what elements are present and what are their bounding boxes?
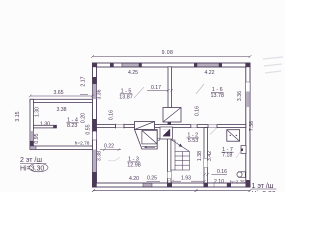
pier bottom-right corner <box>246 183 251 187</box>
bottom wall gray window <box>143 183 152 187</box>
dim 0.16 line room7 <box>203 173 227 176</box>
svg-text:4.22: 4.22 <box>204 70 214 76</box>
svg-text:1.93: 1.93 <box>181 176 191 182</box>
svg-text:1.30: 1.30 <box>35 107 41 117</box>
wall main left <box>93 63 97 187</box>
wing stub cap <box>53 125 56 128</box>
divider wall 1-5/1-6 <box>168 67 172 108</box>
pier top wall B <box>139 63 142 67</box>
svg-text:3.65: 3.65 <box>53 90 63 96</box>
landing rect A <box>135 122 155 130</box>
svg-text:12.98: 12.98 <box>127 162 141 168</box>
svg-text:13.78: 13.78 <box>211 93 225 99</box>
pencil arc room 1-3 <box>108 157 120 161</box>
pier top wall A <box>110 63 114 67</box>
bottom overall dim line <box>92 189 252 192</box>
stair S2 column <box>171 140 175 170</box>
svg-text:h=2.78: h=2.78 <box>75 140 90 146</box>
pencil slash room 1-6 <box>196 84 204 94</box>
stair S1 outline <box>135 130 158 150</box>
wall main bottom <box>93 183 251 187</box>
landing A diagonal <box>135 122 155 130</box>
door gap H1 c <box>208 125 217 128</box>
svg-text:0.95: 0.95 <box>34 133 40 143</box>
wing stub wall <box>33 125 56 128</box>
flue small square <box>241 146 246 154</box>
svg-text:4.20: 4.20 <box>129 176 139 182</box>
bottom wall door white <box>214 183 227 186</box>
left wall gray segment <box>93 84 97 99</box>
svg-text:2 эт /ш: 2 эт /ш <box>20 157 42 164</box>
closet rect B <box>163 108 181 123</box>
wall main right <box>246 63 250 187</box>
dim 0.22 line <box>100 148 121 151</box>
svg-text:13.87: 13.87 <box>119 95 133 101</box>
svg-text:1 - 5: 1 - 5 <box>121 88 132 94</box>
pier top wall C <box>194 63 197 67</box>
interior wall H1 seg5 <box>217 125 246 128</box>
door gap H1 b <box>191 125 197 128</box>
stair S1 upper box <box>142 131 157 144</box>
pier left wall dark <box>93 77 97 84</box>
pier top-left corner <box>92 63 97 67</box>
left wall door gap <box>93 132 97 141</box>
svg-text:3.15: 3.15 <box>15 111 21 121</box>
faint stamp top right <box>263 57 283 73</box>
window top white <box>114 63 123 66</box>
pier top wall D <box>219 63 222 67</box>
stair S1 diagonal <box>142 131 157 144</box>
svg-text:7.36: 7.36 <box>249 121 255 131</box>
svg-text:3.42: 3.42 <box>207 151 213 161</box>
svg-text:0.25: 0.25 <box>147 176 157 182</box>
interior wall H1 seg4 <box>197 125 208 128</box>
svg-text:3.38: 3.38 <box>96 151 102 161</box>
right wall gray segment <box>246 92 250 107</box>
pencil slash room 1-5 <box>134 87 144 98</box>
svg-text:0.16: 0.16 <box>195 106 201 116</box>
pier bottom tee D1 <box>167 183 172 187</box>
tick 2.17 <box>80 94 88 96</box>
dim 9.08 line <box>91 55 252 58</box>
interior wall H1 seg3 <box>155 125 191 128</box>
svg-text:3.36: 3.36 <box>97 89 103 99</box>
svg-text:0.20: 0.20 <box>81 113 87 123</box>
svg-text:h=2.75: h=2.75 <box>230 179 245 185</box>
svg-text:1.38: 1.38 <box>197 151 203 161</box>
pier bottom-left corner <box>92 183 96 187</box>
svg-text:0.55: 0.55 <box>85 124 91 134</box>
vent square X <box>227 130 240 142</box>
stair S2 winder diagonal <box>171 140 190 152</box>
pier right wall bottom <box>246 180 250 187</box>
stair S2 treads <box>175 152 190 171</box>
left wall gray segment 2 <box>93 150 97 173</box>
svg-text:2.17: 2.17 <box>81 76 87 86</box>
svg-text:1.30: 1.30 <box>40 121 50 127</box>
dim 0.25 line <box>147 180 174 183</box>
window top gray 2 <box>197 63 219 67</box>
door swing 1-7 <box>210 128 217 135</box>
svg-text:0.17: 0.17 <box>151 85 161 91</box>
wing left wall <box>30 99 33 146</box>
stove <box>160 127 173 139</box>
stair S1 arrow <box>146 146 156 148</box>
pencil slash room 1-7 <box>236 152 240 158</box>
door jamb ticks <box>116 124 125 129</box>
dim 0.17 line <box>147 89 173 92</box>
dim 3.65 line <box>29 95 94 98</box>
pier left wall bottom <box>92 172 96 187</box>
svg-text:7.18: 7.18 <box>222 152 233 158</box>
stair S1 side notch <box>157 139 159 141</box>
svg-text:1 - 6: 1 - 6 <box>212 87 223 93</box>
stair S2 arrowhead <box>179 144 183 147</box>
door gap D2 <box>204 159 208 168</box>
svg-text:9.08: 9.08 <box>162 50 174 56</box>
stair S1 tread <box>142 145 157 147</box>
svg-text:2.10: 2.10 <box>214 179 224 185</box>
pier left wall at H1 junction <box>92 119 96 131</box>
wing bottom wall <box>30 146 93 150</box>
svg-text:5.53: 5.53 <box>188 138 199 144</box>
svg-text:8.23: 8.23 <box>67 123 78 129</box>
interior wall H1 seg1 <box>97 125 116 128</box>
pier bottom tee D2 <box>204 183 209 187</box>
svg-text:3.38: 3.38 <box>56 107 66 113</box>
wing left wall gray <box>30 131 33 141</box>
interior wall H1 seg2 <box>124 125 135 128</box>
svg-text:4.25: 4.25 <box>128 70 138 76</box>
right wall window white <box>246 82 250 92</box>
divider wall D1 <box>168 128 171 183</box>
wing top wall <box>30 99 93 102</box>
svg-text:0.16: 0.16 <box>217 169 227 175</box>
gas stove symbol <box>239 172 246 178</box>
window top gray <box>122 63 139 67</box>
wing bottom gray <box>30 146 36 150</box>
closet B diagonal <box>163 108 181 123</box>
svg-text:3.36: 3.36 <box>237 91 243 101</box>
pier top-right corner <box>246 63 251 67</box>
door gap H1 a <box>116 125 125 128</box>
svg-text:0.16: 0.16 <box>109 110 115 120</box>
divider wall D2 <box>204 128 208 183</box>
door gap D1 <box>167 172 171 179</box>
pier bottom E <box>227 183 231 187</box>
dim 1.93 line <box>171 180 206 183</box>
wall main top <box>93 63 251 67</box>
svg-text:Hi=3.30: Hi=3.30 <box>252 191 276 192</box>
divider D1 top stub <box>168 121 171 125</box>
